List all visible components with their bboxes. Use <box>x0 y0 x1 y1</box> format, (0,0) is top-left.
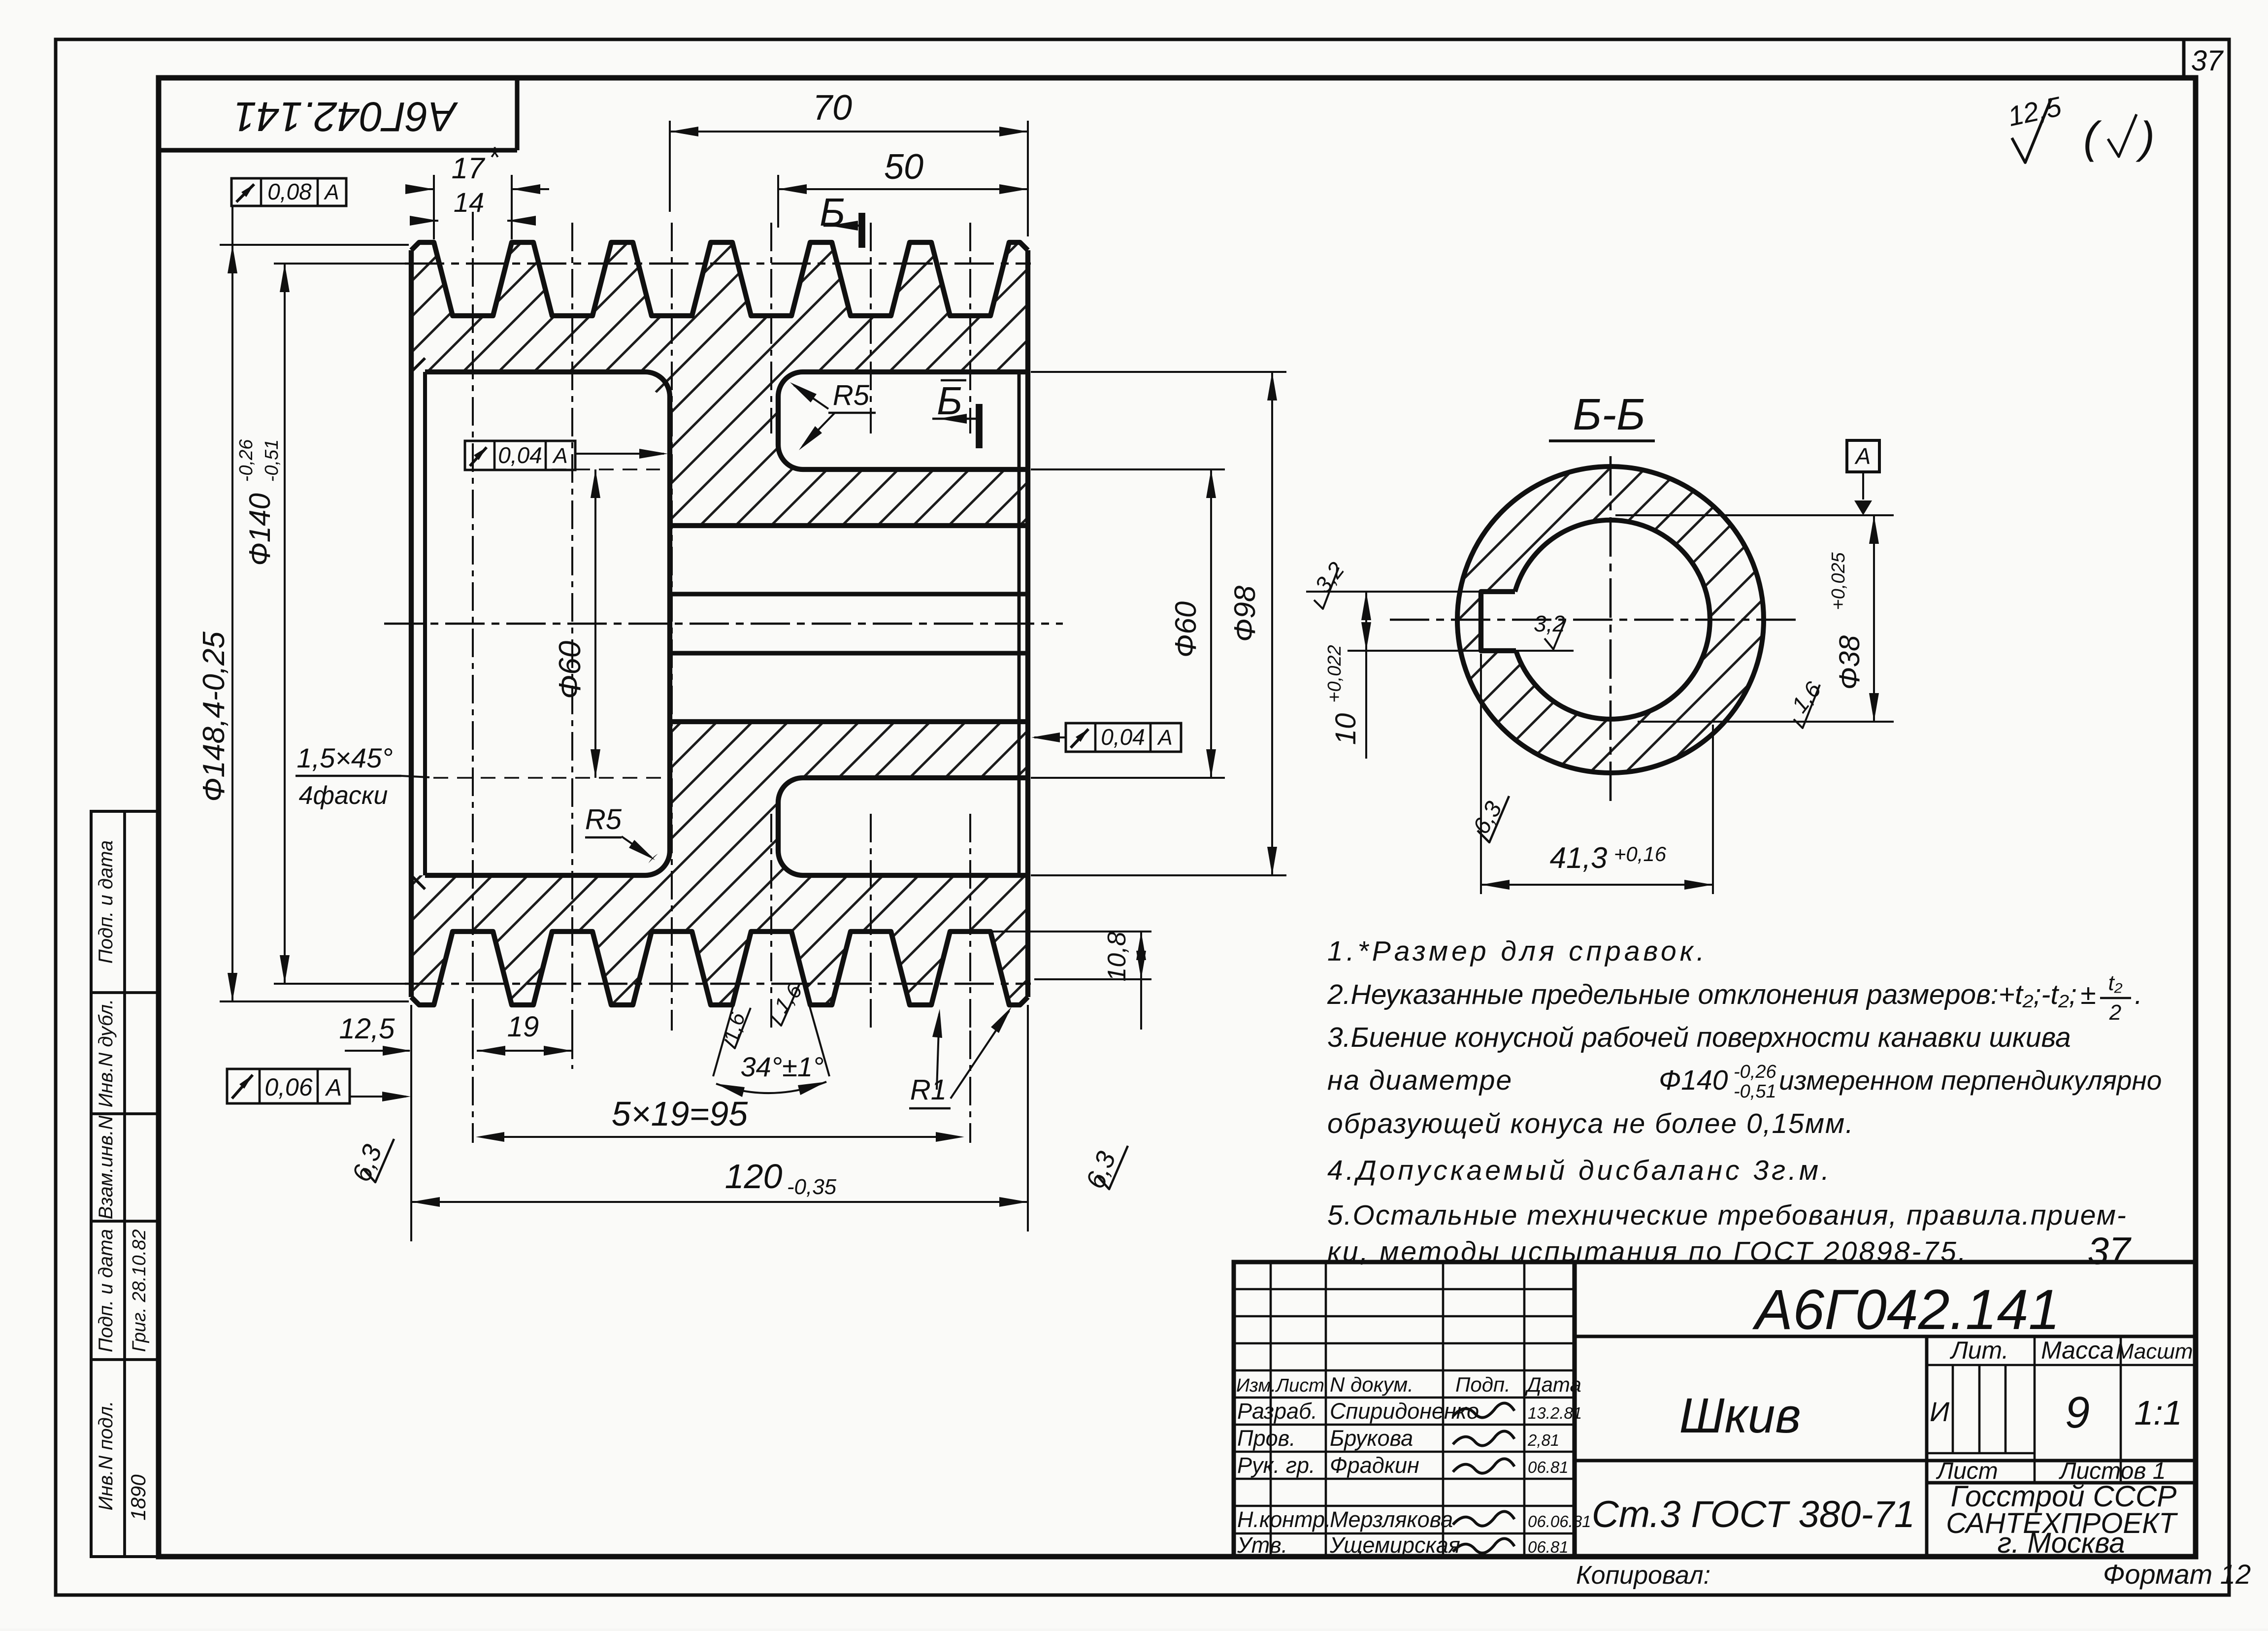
svg-text:+0,022: +0,022 <box>1324 645 1345 702</box>
right recess wall with R5 fillets (top) <box>776 397 781 445</box>
dimension F140 -0,26/-0,51 (pitch diameter) <box>274 263 409 265</box>
svg-text:41,3: 41,3 <box>1550 841 1608 874</box>
svg-text:Ст.3 ГОСТ 380-71: Ст.3 ГОСТ 380-71 <box>1592 1494 1915 1535</box>
dimension 50 (recess depth) <box>777 175 779 228</box>
svg-text:50: 50 <box>884 147 923 187</box>
svg-text:10,8: 10,8 <box>1103 932 1131 981</box>
svg-text:И: И <box>1930 1396 1950 1427</box>
top toothed rim outline <box>411 242 1028 316</box>
dimension F38+0,025 (bore) <box>1615 514 1894 516</box>
hub ring hatched (B-B) <box>1457 466 1764 773</box>
angle dimension 34 +-1 on groove 4 <box>713 1005 733 1076</box>
svg-text:1.*Размер для справок.: 1.*Размер для справок. <box>1327 935 1708 967</box>
svg-text:19: 19 <box>507 1011 539 1043</box>
svg-text:Шкив: Шкив <box>1679 1388 1801 1443</box>
bore circle F38 (broken at keyway) <box>1515 520 1710 719</box>
svg-text:Масса: Масса <box>2041 1336 2114 1364</box>
svg-text:Масшт.: Масшт. <box>2116 1339 2199 1364</box>
svg-text:0,04: 0,04 <box>1101 724 1145 750</box>
svg-text:Взам.инв.N: Взам.инв.N <box>95 1116 117 1220</box>
dimension F60 left (inside recess) <box>552 468 660 470</box>
svg-text:+0,16: +0,16 <box>1614 842 1667 865</box>
runout frame 0,04-A right with leader to right face <box>1066 723 1181 752</box>
svg-text:Рук. гр.: Рук. гр. <box>1237 1453 1315 1478</box>
svg-text:Инв.N дубл.: Инв.N дубл. <box>95 999 117 1107</box>
svg-text:Копировал:: Копировал: <box>1576 1561 1710 1590</box>
main axis centerline <box>384 623 1063 625</box>
svg-text:Ф140: Ф140 <box>1659 1065 1728 1096</box>
svg-text:±: ± <box>2080 979 2096 1010</box>
svg-text:14: 14 <box>454 187 484 218</box>
groove centerlines <box>472 212 474 1031</box>
svg-text:измеренном перпендикулярно: измеренном перпендикулярно <box>1779 1065 2162 1096</box>
svg-text:120: 120 <box>725 1157 783 1196</box>
svg-text:5×19=95: 5×19=95 <box>612 1095 748 1133</box>
svg-text:Инв.N подл.: Инв.N подл. <box>95 1401 117 1511</box>
svg-text:12,5: 12,5 <box>339 1013 395 1045</box>
svg-text:Пров.: Пров. <box>1237 1426 1296 1451</box>
svg-text:Формат 12: Формат 12 <box>2103 1559 2251 1590</box>
dimension 41,3+0,16 (keyway depth) <box>1480 654 1482 894</box>
runout frame 0,06-A bottom with leader <box>227 1069 350 1103</box>
dimension F60 right <box>1031 468 1225 470</box>
svg-text:2,81: 2,81 <box>1527 1431 1559 1449</box>
svg-text:Ущемирская: Ущемирская <box>1329 1532 1460 1558</box>
pulley main section - hatched rim and web (bottom half) <box>411 722 1028 1005</box>
dimension 14 (groove width at F140) <box>413 220 438 222</box>
svg-text:А: А <box>323 180 339 204</box>
dimension 120-0,35 (overall width) <box>1027 1005 1029 1232</box>
top-left corner stamp box (rotated doc number) <box>159 148 517 152</box>
web left face / recess right wall with R5 fillets <box>667 397 672 851</box>
svg-text:1,5×45°: 1,5×45° <box>296 742 393 773</box>
svg-text:г. Москва: г. Москва <box>1997 1527 2125 1559</box>
keyway slot outline <box>1481 592 1516 651</box>
svg-text:А6Г042.141: А6Г042.141 <box>233 94 459 140</box>
top-right sheet number box <box>2182 39 2186 78</box>
title block grid <box>1270 1262 1272 1557</box>
dimension 12,5 (first groove offset) <box>410 1005 412 1241</box>
svg-text:Ф60: Ф60 <box>553 641 587 699</box>
svg-text:+0,025: +0,025 <box>1828 552 1849 610</box>
dimension 19 (groove pitch) <box>477 1050 571 1052</box>
svg-text:06.81: 06.81 <box>1528 1458 1569 1476</box>
svg-text:34°±1°: 34°±1° <box>741 1051 824 1082</box>
svg-text:0,04: 0,04 <box>498 442 542 468</box>
svg-text:17: 17 <box>452 152 486 185</box>
svg-text:Ф60: Ф60 <box>1169 601 1202 658</box>
svg-text:4.Допускаемый дисбаланс 3г.м.: 4.Допускаемый дисбаланс 3г.м. <box>1327 1155 1832 1186</box>
left margin column boxes <box>91 811 158 1557</box>
svg-text:Лит.: Лит. <box>1949 1336 2008 1364</box>
dimension F148,4-0,25 (outer diameter) <box>220 244 409 246</box>
svg-text:Подп. и дата: Подп. и дата <box>95 840 117 964</box>
svg-text:Ф148,4-0,25: Ф148,4-0,25 <box>197 632 231 802</box>
svg-text:Брукова: Брукова <box>1330 1426 1413 1451</box>
dimension F98 (rim inner diameter) <box>1031 371 1286 373</box>
rim inner surface bottom (F98) <box>425 873 645 878</box>
svg-text:Изм.Лист: Изм.Лист <box>1236 1375 1324 1396</box>
svg-text:А: А <box>552 444 567 468</box>
svg-text:.: . <box>2135 979 2142 1010</box>
svg-text:06.81: 06.81 <box>1528 1538 1569 1556</box>
rim inner surface top (F98) <box>425 369 645 374</box>
svg-text:-0,26: -0,26 <box>1734 1062 1776 1082</box>
pulley left face <box>409 250 414 997</box>
svg-text:Ф38: Ф38 <box>1834 635 1866 690</box>
svg-text:-0,51: -0,51 <box>262 439 282 482</box>
svg-text:Н.контр.: Н.контр. <box>1237 1507 1331 1532</box>
keyway slot white-out <box>1481 592 1535 651</box>
svg-text:Подп.: Подп. <box>1455 1373 1511 1396</box>
svg-text:N докум.: N докум. <box>1330 1373 1413 1396</box>
svg-text:-0,51: -0,51 <box>1734 1081 1776 1102</box>
svg-text:2: 2 <box>2109 1000 2121 1025</box>
svg-text:на диаметре: на диаметре <box>1327 1065 1512 1096</box>
hub outer circle F60 <box>1457 466 1764 773</box>
roughness 3,2 on keyway floor <box>1481 650 1574 652</box>
svg-text:-0,26: -0,26 <box>236 439 257 482</box>
F140 pitch line top <box>405 263 1031 265</box>
hub outer surface F60 (recess floors) <box>803 467 1028 472</box>
left recess mouth edge <box>423 372 427 875</box>
pulley right face <box>1025 250 1030 997</box>
right recess mouth edge <box>1018 372 1021 875</box>
runout frame 0,04-A left with leader to web face <box>465 441 575 470</box>
svg-text:2.Неуказанные предельные откло: 2.Неуказанные предельные отклонения разм… <box>1327 979 2077 1010</box>
svg-text:37: 37 <box>2088 1229 2132 1272</box>
svg-text:Ф140: Ф140 <box>243 493 276 566</box>
F140 pitch line bottom <box>405 983 1031 985</box>
svg-text:А: А <box>1854 443 1871 469</box>
svg-text:1890: 1890 <box>127 1474 150 1521</box>
dimension 10,8 right side <box>981 931 1151 932</box>
svg-text:0,08: 0,08 <box>267 179 312 204</box>
B-B centerlines <box>1390 619 1802 621</box>
svg-text:Подп. и дата: Подп. и дата <box>95 1229 117 1352</box>
title block outer <box>1234 1262 2196 1557</box>
svg-text:R1: R1 <box>910 1074 947 1106</box>
svg-text:Дата: Дата <box>1525 1373 1581 1396</box>
svg-text:Б-Б: Б-Б <box>1573 390 1645 439</box>
svg-text:А: А <box>325 1075 342 1101</box>
svg-text:Григ. 28.10.82: Григ. 28.10.82 <box>129 1229 150 1352</box>
svg-text:1:1: 1:1 <box>2134 1394 2182 1432</box>
svg-text:Утв.: Утв. <box>1237 1532 1287 1558</box>
runout frame 0,08-A with leader <box>231 178 346 206</box>
right recess wall with R5 fillets (bottom) <box>776 802 781 851</box>
svg-text:R5: R5 <box>585 803 622 835</box>
dimension 10+0,022 (keyway width) <box>1306 591 1483 593</box>
svg-text:4фаски: 4фаски <box>299 781 388 810</box>
svg-text:*: * <box>488 141 500 174</box>
svg-text:5.Остальные технические требов: 5.Остальные технические требования, прав… <box>1327 1199 2127 1231</box>
bore F38 lines <box>670 523 1028 528</box>
svg-text:37: 37 <box>2191 45 2224 77</box>
svg-text:0,06: 0,06 <box>264 1073 313 1101</box>
svg-text:Фрадкин: Фрадкин <box>1330 1453 1419 1478</box>
keyway slot walls in bore <box>670 592 1028 596</box>
svg-text:образующей конуса не более 0,1: образующей конуса не более 0,15мм. <box>1327 1108 1854 1139</box>
dimension 17* (groove top width) <box>433 175 435 239</box>
dimension 70 (hub length) <box>669 121 671 212</box>
svg-text:t₂: t₂ <box>2108 971 2122 995</box>
svg-text:А: А <box>1156 726 1172 750</box>
svg-text:10: 10 <box>1330 713 1362 745</box>
dimension 5x19=95 <box>482 1136 958 1138</box>
svg-text:06.06.81: 06.06.81 <box>1528 1512 1591 1531</box>
bottom toothed rim outline <box>411 932 1028 1005</box>
svg-text:R5: R5 <box>833 379 870 411</box>
svg-text:-0,35: -0,35 <box>787 1175 837 1199</box>
datum frame A <box>1847 440 1879 472</box>
svg-text:А6Г042.141: А6Г042.141 <box>1752 1278 2060 1341</box>
svg-text:13.2.81: 13.2.81 <box>1528 1404 1582 1422</box>
svg-text:Мерзлякова: Мерзлякова <box>1330 1507 1453 1532</box>
svg-text:9: 9 <box>2065 1388 2090 1437</box>
svg-text:3.Биение конусной рабочей пове: 3.Биение конусной рабочей поверхности ка… <box>1327 1022 2071 1053</box>
signatures squiggles <box>1453 1403 1514 1417</box>
svg-text:Разраб.: Разраб. <box>1237 1398 1317 1424</box>
svg-text:Ф98: Ф98 <box>1228 585 1261 642</box>
pulley main section - hatched rim and web (top half) <box>411 242 1028 526</box>
svg-text:70: 70 <box>813 88 852 128</box>
